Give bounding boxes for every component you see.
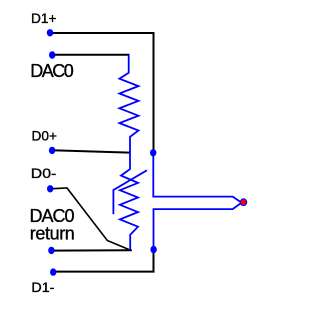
wire D0- diagonal to pot bottom <box>50 188 130 250</box>
junction dot top right <box>150 149 156 156</box>
resistor R1 (upper, blue zigzag) <box>119 55 138 153</box>
svg-text:D0-: D0- <box>31 165 57 181</box>
node dot DAC0 return <box>48 247 54 254</box>
node dot D1- <box>50 268 56 275</box>
node dot D1+ <box>47 29 53 36</box>
wiper rail top (blue) from top junction to red terminal <box>153 153 240 202</box>
wire DAC0 to resistor R1 top <box>52 54 130 56</box>
potentiometer adjustment arrow (bent line through R2) <box>113 170 146 214</box>
junction dot bottom right <box>150 246 156 253</box>
svg-text:return: return <box>30 224 75 244</box>
node dot DAC0 <box>49 51 55 58</box>
wire D0+ to R1 bottom / pot top <box>52 150 130 152</box>
wire DAC0 return to pot bottom <box>51 249 131 251</box>
node dot D0- <box>47 185 53 192</box>
resistor R2 / potentiometer body (lower, blue zigzag) <box>120 153 138 251</box>
svg-text:D1-: D1- <box>31 279 54 295</box>
wiper output terminal (red dot with blue ring) <box>240 199 246 206</box>
svg-text:D1+: D1+ <box>31 10 57 26</box>
svg-text:D0+: D0+ <box>32 128 58 144</box>
wire D1- to bottom-right corner and up to junction <box>53 250 153 272</box>
node dot D0+ <box>49 147 55 154</box>
wiper rail bottom (blue) from bottom junction to red terminal <box>154 203 241 249</box>
svg-text:DAC0: DAC0 <box>30 61 74 81</box>
wire D1+ to top-right corner and down to junction <box>50 33 154 150</box>
